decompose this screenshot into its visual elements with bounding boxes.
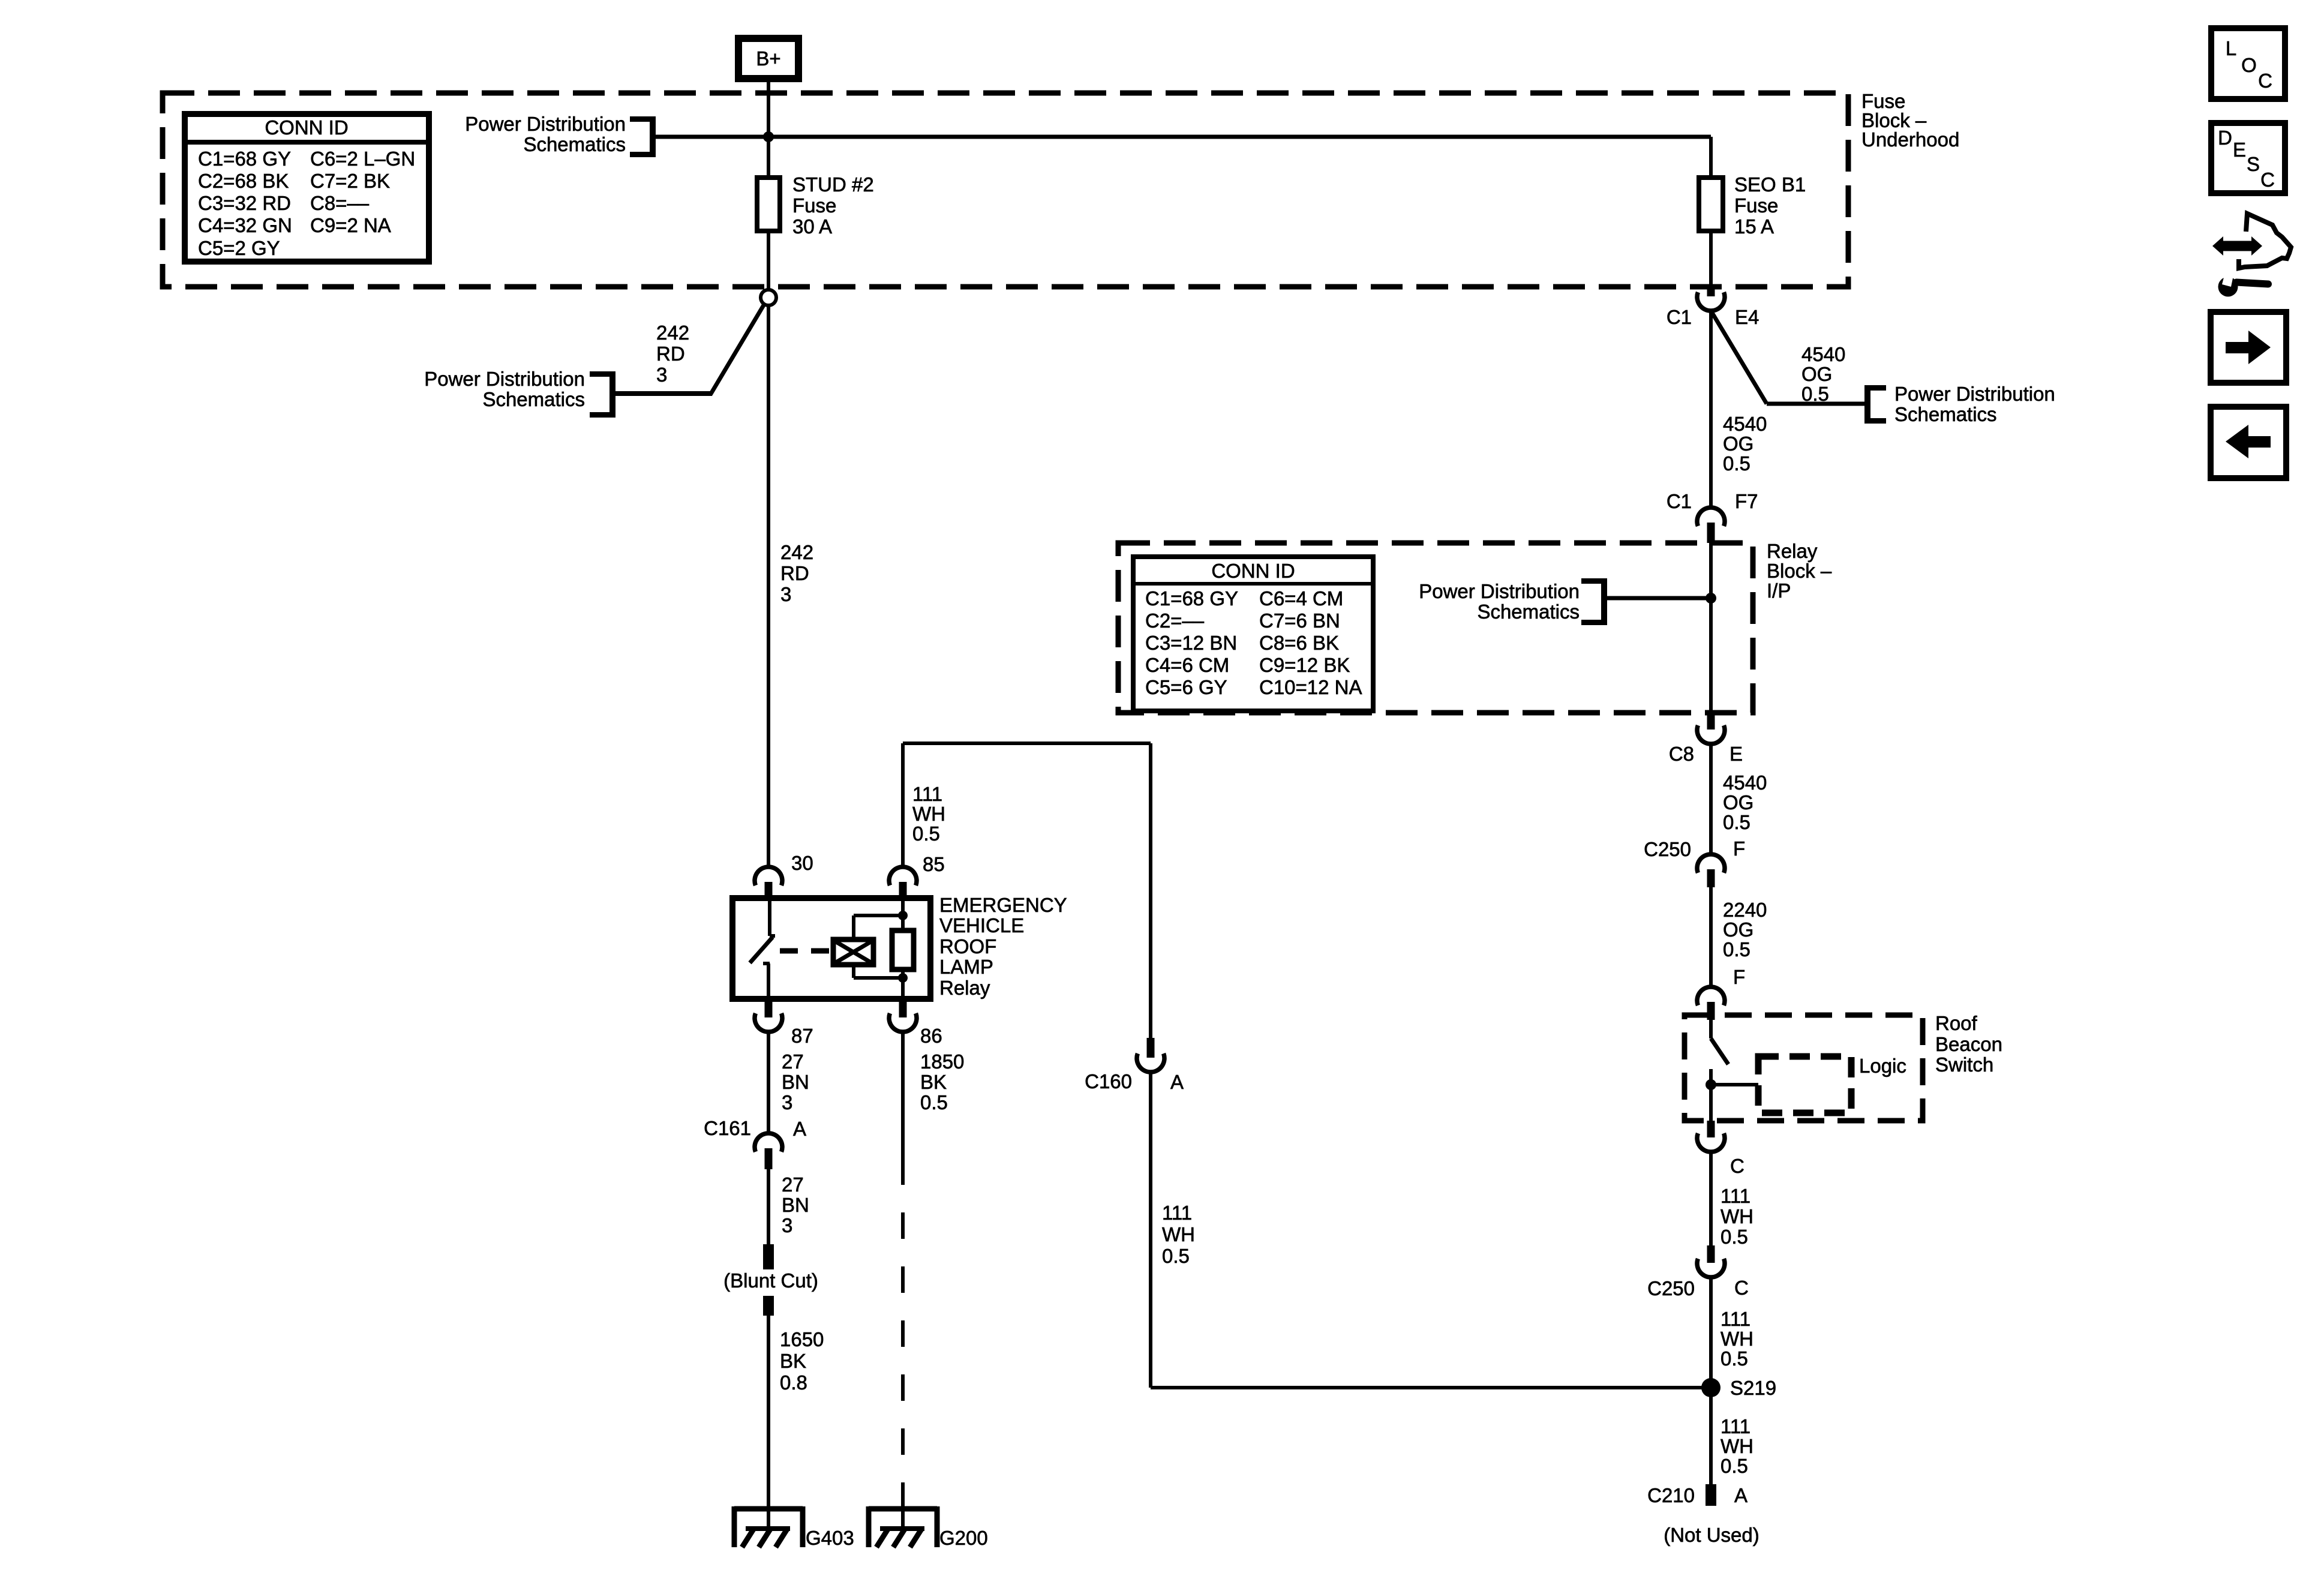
svg-text:Schematics: Schematics (523, 133, 626, 155)
svg-text:0.5: 0.5 (920, 1091, 948, 1113)
svg-text:0.5: 0.5 (1721, 1347, 1748, 1370)
svg-text:0.5: 0.5 (1723, 938, 1750, 960)
svg-text:Schematics: Schematics (1894, 403, 1997, 425)
svg-text:111: 111 (912, 783, 942, 805)
svg-text:O: O (2241, 54, 2257, 76)
svg-text:0.5: 0.5 (1723, 811, 1750, 833)
svg-text:(Blunt Cut): (Blunt Cut) (723, 1269, 818, 1292)
svg-text:Switch: Switch (1935, 1053, 1993, 1076)
svg-text:C4=32 GN: C4=32 GN (198, 214, 292, 236)
svg-text:1650: 1650 (780, 1328, 824, 1350)
svg-text:STUD #2: STUD #2 (792, 173, 874, 196)
svg-text:30 A: 30 A (792, 215, 832, 238)
svg-text:4540: 4540 (1723, 772, 1767, 794)
svg-text:CONN ID: CONN ID (265, 116, 348, 139)
svg-text:Fuse: Fuse (1734, 194, 1778, 217)
svg-text:15 A: 15 A (1734, 215, 1774, 238)
svg-text:Underhood: Underhood (1861, 128, 1959, 151)
svg-text:Block –: Block – (1767, 560, 1832, 582)
svg-text:B+: B+ (756, 47, 780, 70)
svg-text:S: S (2247, 153, 2260, 175)
svg-text:Schematics: Schematics (1477, 601, 1580, 623)
svg-text:F7: F7 (1735, 490, 1758, 512)
svg-text:Logic: Logic (1859, 1055, 1906, 1077)
svg-text:BK: BK (920, 1071, 947, 1093)
svg-text:LAMP: LAMP (939, 956, 993, 978)
svg-text:C2=––: C2=–– (1145, 610, 1205, 632)
svg-text:C10=12 NA: C10=12 NA (1259, 676, 1362, 698)
svg-text:A: A (1734, 1484, 1747, 1506)
svg-text:C8=––: C8=–– (310, 192, 370, 214)
svg-text:2240: 2240 (1723, 899, 1767, 921)
svg-text:Relay: Relay (939, 977, 990, 999)
svg-text:4540: 4540 (1801, 343, 1845, 365)
svg-text:C1=68 GY: C1=68 GY (1145, 587, 1238, 610)
svg-text:3: 3 (782, 1091, 792, 1113)
svg-text:A: A (1170, 1071, 1184, 1093)
svg-text:Beacon: Beacon (1935, 1033, 2002, 1055)
svg-text:0.5: 0.5 (1721, 1455, 1748, 1477)
svg-text:G403: G403 (806, 1527, 854, 1549)
svg-text:Roof: Roof (1935, 1012, 1978, 1034)
svg-text:C7=2 BK: C7=2 BK (310, 170, 390, 192)
svg-text:Relay: Relay (1767, 540, 1818, 562)
svg-text:0.5: 0.5 (912, 822, 940, 845)
svg-text:C161: C161 (704, 1117, 751, 1139)
svg-text:BN: BN (782, 1071, 809, 1093)
svg-text:3: 3 (656, 364, 667, 386)
svg-text:C1=68 GY: C1=68 GY (198, 148, 291, 170)
svg-text:87: 87 (791, 1025, 813, 1047)
svg-text:(Not Used): (Not Used) (1664, 1524, 1759, 1546)
svg-text:85: 85 (923, 853, 945, 875)
svg-text:F: F (1733, 837, 1745, 860)
svg-text:C1: C1 (1667, 306, 1692, 328)
svg-text:C1: C1 (1667, 490, 1692, 512)
svg-text:C6=2 L–GN: C6=2 L–GN (310, 148, 415, 170)
svg-text:S219: S219 (1730, 1377, 1776, 1399)
svg-text:111: 111 (1721, 1185, 1750, 1207)
svg-text:1850: 1850 (920, 1050, 964, 1073)
svg-text:C160: C160 (1085, 1070, 1132, 1092)
svg-text:C8: C8 (1669, 743, 1694, 765)
svg-text:0.5: 0.5 (1162, 1245, 1190, 1267)
svg-text:C2=68 BK: C2=68 BK (198, 170, 289, 192)
svg-text:C6=4 CM: C6=4 CM (1259, 587, 1343, 610)
svg-text:Power Distribution: Power Distribution (1419, 580, 1580, 602)
svg-text:C9=2 NA: C9=2 NA (310, 214, 391, 236)
svg-text:Fuse: Fuse (792, 194, 836, 217)
svg-text:27: 27 (782, 1050, 804, 1073)
svg-text:C7=6 BN: C7=6 BN (1259, 610, 1340, 632)
svg-text:0.5: 0.5 (1801, 383, 1829, 405)
svg-text:WH: WH (1721, 1205, 1753, 1227)
svg-text:ROOF: ROOF (939, 935, 996, 957)
svg-text:111: 111 (1162, 1202, 1192, 1224)
svg-text:WH: WH (912, 803, 945, 825)
svg-text:86: 86 (920, 1025, 942, 1047)
svg-text:I/P: I/P (1767, 580, 1791, 602)
svg-text:BN: BN (782, 1194, 809, 1216)
svg-text:L: L (2226, 37, 2236, 59)
svg-text:0.5: 0.5 (1723, 452, 1750, 475)
svg-text:242: 242 (780, 541, 813, 563)
svg-text:C9=12 BK: C9=12 BK (1259, 654, 1350, 676)
svg-text:C: C (1730, 1155, 1744, 1177)
svg-text:E4: E4 (1735, 306, 1759, 328)
svg-text:VEHICLE: VEHICLE (939, 914, 1024, 936)
svg-text:Schematics: Schematics (482, 388, 585, 410)
svg-text:111: 111 (1721, 1308, 1750, 1330)
svg-text:OG: OG (1723, 433, 1753, 455)
svg-text:SEO B1: SEO B1 (1734, 173, 1806, 196)
svg-text:3: 3 (782, 1214, 792, 1236)
svg-text:E: E (2233, 139, 2246, 161)
svg-text:C: C (2258, 70, 2272, 92)
svg-text:C210: C210 (1647, 1484, 1695, 1506)
svg-text:F: F (1733, 966, 1745, 988)
svg-text:0.8: 0.8 (780, 1371, 807, 1394)
svg-text:OG: OG (1723, 791, 1753, 813)
svg-text:EMERGENCY: EMERGENCY (939, 894, 1067, 916)
svg-text:Power Distribution: Power Distribution (1894, 383, 2055, 405)
svg-text:A: A (793, 1118, 806, 1140)
svg-text:OG: OG (1801, 363, 1832, 385)
svg-text:C8=6 BK: C8=6 BK (1259, 632, 1339, 654)
svg-text:C: C (1734, 1277, 1749, 1299)
svg-text:30: 30 (791, 852, 813, 874)
svg-text:WH: WH (1721, 1328, 1753, 1350)
svg-text:C250: C250 (1647, 1277, 1695, 1299)
svg-text:E: E (1730, 743, 1743, 765)
svg-text:RD: RD (656, 343, 685, 365)
svg-text:RD: RD (780, 562, 809, 584)
svg-text:C4=6 CM: C4=6 CM (1145, 654, 1229, 676)
svg-text:C5=2 GY: C5=2 GY (198, 237, 280, 259)
svg-text:D: D (2218, 127, 2232, 149)
svg-text:CONN ID: CONN ID (1211, 560, 1295, 582)
svg-text:C3=12 BN: C3=12 BN (1145, 632, 1237, 654)
svg-text:Power Distribution: Power Distribution (465, 113, 626, 135)
svg-text:3: 3 (780, 583, 791, 605)
svg-text:111: 111 (1721, 1415, 1750, 1437)
svg-text:27: 27 (782, 1173, 804, 1196)
svg-text:C: C (2260, 169, 2275, 191)
svg-text:0.5: 0.5 (1721, 1226, 1748, 1248)
svg-text:BK: BK (780, 1350, 806, 1372)
svg-text:4540: 4540 (1723, 413, 1767, 435)
svg-text:Power Distribution: Power Distribution (424, 368, 585, 390)
svg-text:WH: WH (1721, 1435, 1753, 1457)
svg-text:242: 242 (656, 322, 689, 344)
svg-text:WH: WH (1162, 1223, 1195, 1245)
svg-text:C5=6 GY: C5=6 GY (1145, 676, 1227, 698)
svg-text:C3=32 RD: C3=32 RD (198, 192, 291, 214)
svg-text:G200: G200 (939, 1527, 988, 1549)
svg-text:OG: OG (1723, 918, 1753, 941)
svg-text:C250: C250 (1644, 838, 1691, 860)
